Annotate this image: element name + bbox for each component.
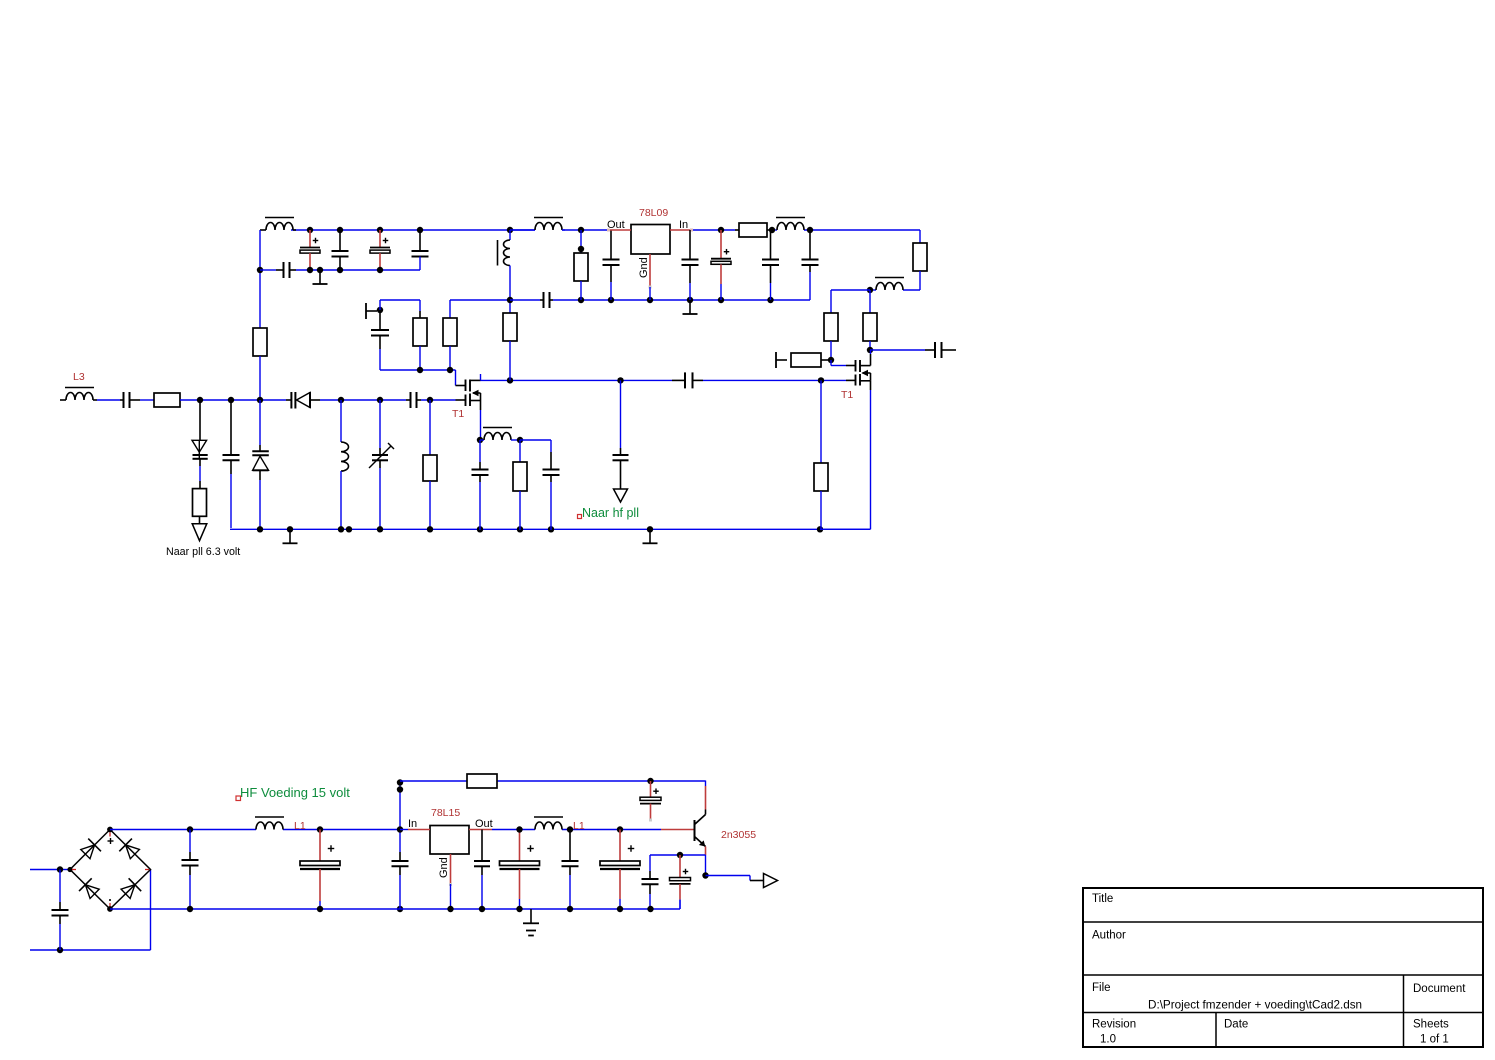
bridge diode D2 — [81, 839, 101, 859]
svg-text:Title: Title — [1092, 893, 1113, 905]
junction dots 0V rail — [187, 906, 654, 912]
capacitor C31 x=650 — [642, 871, 659, 909]
svg-text:Out: Out — [475, 818, 493, 830]
wire +9V top rail — [291, 230, 920, 243]
capacitor C8 x=231 — [223, 400, 240, 529]
pin Out 78L15 — [469, 818, 493, 830]
wire — [831, 290, 870, 313]
wire gate1 net — [421, 399, 456, 401]
svg-text:1.0: 1.0 — [1100, 1034, 1116, 1046]
capacitor C23 x=190 — [182, 830, 199, 910]
capacitor C19 x=480 — [472, 440, 489, 530]
resistor R9 horizontal — [735, 223, 772, 237]
inductor L3 — [60, 388, 97, 401]
transistor T2 dual-gate MOSFET — [820, 350, 871, 529]
transistor T1 dual-gate MOSFET — [456, 374, 481, 440]
junction dots ground bus — [257, 526, 823, 532]
capacitor C11 series — [672, 372, 703, 388]
diode D6 varicap vertical x=260 — [252, 400, 268, 529]
capacitor C26 electrolytic — [640, 781, 661, 822]
wire feedback — [650, 855, 706, 871]
wire emitter out — [706, 876, 764, 881]
wire input bus y=400 — [180, 399, 286, 401]
capacitor C13 x=611 — [603, 230, 620, 300]
junction dots AC — [57, 866, 73, 953]
resistor R5 x=420 — [413, 311, 427, 370]
label L3 — [73, 371, 85, 383]
resistor R13 horizontal — [791, 353, 831, 367]
port arrow Naar pll — [192, 516, 207, 540]
junction dot — [702, 872, 708, 878]
resistor R12 x=870 — [863, 290, 877, 350]
junction dots ground rail — [578, 297, 774, 303]
wire — [199, 459, 201, 489]
capacitor C25 x=400 — [392, 852, 409, 909]
capacitor C15 electrolytic — [711, 230, 731, 300]
capacitor C29 x=570 — [562, 830, 579, 910]
label 78L09 — [639, 207, 668, 219]
svg-text:Naar pll 6.3 volt: Naar pll 6.3 volt — [166, 546, 240, 558]
svg-text:File: File — [1092, 982, 1111, 994]
title block — [1083, 888, 1483, 1047]
pin Out — [607, 219, 631, 232]
ground — [643, 529, 658, 543]
label Naar pll 6.3 volt — [166, 546, 240, 558]
capacitor C27 x=482 — [474, 830, 490, 910]
bridge diode D4 — [79, 878, 99, 898]
bridge diode D3 — [119, 839, 139, 859]
junction dot — [317, 826, 323, 832]
junction dot — [516, 826, 522, 832]
resistor R6 x=450 — [443, 300, 457, 370]
label 2n3055 — [721, 829, 756, 841]
wire — [140, 399, 154, 401]
capacitor C32 electrolytic — [670, 855, 691, 909]
junction dot — [507, 297, 513, 303]
label T1 second — [841, 389, 853, 401]
capacitor C17 x=810 — [802, 230, 819, 272]
svg-text:Revision: Revision — [1092, 1019, 1136, 1031]
wire — [520, 440, 551, 452]
inductor L9 — [480, 428, 520, 441]
inductor L4 vertical x=341 — [341, 400, 349, 530]
svg-text:L3: L3 — [73, 371, 85, 383]
junction dot — [517, 437, 523, 443]
junction dots bridge — [107, 827, 113, 912]
svg-text:78L09: 78L09 — [639, 207, 668, 219]
label L1 — [294, 820, 306, 832]
junction dots In column — [397, 779, 403, 912]
capacitor C24 electrolytic big — [300, 830, 340, 910]
svg-text:Sheets: Sheets — [1413, 1019, 1449, 1031]
inductor L7 — [776, 218, 805, 231]
bridge polarity marks — [72, 833, 149, 908]
svg-text:L1: L1 — [294, 820, 306, 832]
junction dots y=270 — [307, 267, 383, 273]
inductor L5 vertical x=510 — [498, 230, 511, 300]
svg-text:L1: L1 — [573, 820, 585, 832]
resistor R11 x=831 — [824, 313, 838, 360]
capacitor C2 — [332, 230, 349, 270]
regulator U2 78L15 — [430, 826, 469, 855]
wire — [259, 356, 261, 400]
svg-text:Date: Date — [1224, 1019, 1248, 1031]
wire bypass top — [400, 780, 706, 782]
junction dot — [617, 826, 623, 832]
tap stub — [776, 352, 787, 368]
svg-text:T1: T1 — [452, 408, 464, 420]
resistor R15 x=520 — [513, 440, 527, 530]
junction dots — [338, 397, 383, 403]
capacitor C18 output series — [870, 342, 956, 358]
wire — [97, 399, 120, 401]
label L1 second — [573, 820, 585, 832]
svg-text:Out: Out — [607, 219, 625, 231]
svg-text:HF Voeding 15 volt: HF Voeding 15 volt — [240, 785, 350, 800]
capacitor C1 electrolytic — [300, 230, 320, 270]
capacitor C28 electrolytic big — [500, 830, 540, 910]
inductor L1a — [255, 817, 284, 830]
wire left branch x=260 — [259, 230, 261, 328]
capacitor C6 series — [120, 392, 140, 408]
junction dot — [567, 826, 573, 832]
resistor R14 x=820 — [814, 380, 828, 529]
wire y=370 net — [380, 370, 456, 386]
pin Gnd 78L15 — [438, 854, 452, 909]
resistor R7 x=510 — [503, 300, 517, 380]
junction dot — [257, 267, 263, 273]
resistor R8 x=581 — [574, 230, 588, 300]
diode D1 varicap — [286, 392, 320, 409]
label T1 — [452, 408, 464, 420]
junction dots top rail — [307, 227, 813, 233]
junction dot — [677, 852, 683, 858]
capacitor C7 series — [406, 392, 421, 408]
inductor L1b — [534, 817, 563, 830]
ground — [283, 529, 298, 543]
junction dot — [477, 437, 483, 443]
ground — [313, 270, 328, 284]
svg-text:Naar hf pll: Naar hf pll — [582, 506, 639, 520]
wire +V rail — [110, 829, 400, 831]
junction dots — [417, 367, 453, 373]
regulator U1 78L09 — [631, 225, 670, 255]
svg-text:Author: Author — [1092, 930, 1126, 942]
ground earth — [523, 909, 539, 936]
bridge rectifier B1 frame — [70, 830, 151, 910]
bridge diode D5 — [121, 878, 141, 898]
svg-text:In: In — [408, 818, 417, 830]
junction dot — [867, 347, 873, 353]
wire AC line 1 — [30, 869, 70, 871]
junction dot — [427, 397, 433, 403]
variable capacitor C9 — [369, 400, 394, 530]
capacitor C12 series — [540, 292, 553, 308]
zener diode Z1 — [192, 400, 208, 459]
svg-text:Gnd: Gnd — [638, 257, 650, 278]
label HF Voeding 15 volt — [236, 785, 350, 801]
wire cap-bank bottom y=270 — [260, 269, 420, 271]
wire ground rail y=300 — [510, 272, 810, 300]
label 78L15 — [431, 807, 460, 819]
ground — [683, 300, 698, 314]
capacitor C21 x=620 — [613, 380, 629, 489]
capacitor C4 — [412, 230, 429, 270]
svg-text:D:\Project fmzender + voeding\: D:\Project fmzender + voeding\tCad2.dsn — [1148, 999, 1362, 1012]
junction dot — [187, 826, 193, 832]
wire — [380, 300, 420, 311]
tap stub — [366, 303, 377, 319]
wire Out rail — [492, 829, 661, 831]
capacitor C16 x=770 — [762, 230, 779, 300]
capacitor C30 electrolytic big — [600, 830, 640, 910]
capacitor C10 — [371, 310, 389, 370]
pin Gnd — [638, 254, 652, 300]
wire AC line 2 — [30, 870, 151, 951]
junction dot node A — [377, 307, 383, 313]
wire ground bus y=530 — [231, 528, 870, 530]
junction dots y=400 left — [197, 397, 263, 403]
port arrow output — [764, 874, 778, 888]
capacitor C20 x=551 — [543, 452, 560, 530]
svg-text:78L15: 78L15 — [431, 807, 460, 819]
svg-text:T1: T1 — [841, 389, 853, 401]
junction dot — [828, 357, 834, 363]
svg-text:2n3055: 2n3055 — [721, 829, 756, 841]
label Naar hf pll — [578, 506, 639, 520]
wire 0V rail — [110, 900, 680, 909]
inductor L8 — [870, 278, 904, 291]
svg-text:Document: Document — [1413, 983, 1466, 995]
svg-text:1 of 1: 1 of 1 — [1420, 1034, 1449, 1046]
capacitor C22 AC input — [52, 870, 69, 951]
capacitor C14 x=690 — [682, 230, 699, 300]
pin In 78L15 — [400, 818, 430, 830]
port arrow Naar hf pll — [614, 489, 628, 502]
svg-text:In: In — [679, 219, 688, 231]
inductor L6 — [510, 218, 565, 231]
junction dot — [647, 778, 653, 784]
wire — [320, 399, 406, 401]
inductor top-left — [260, 218, 296, 231]
capacitor C5 series — [276, 262, 296, 278]
svg-text:Gnd: Gnd — [438, 857, 450, 878]
resistor R4 x=430 — [423, 400, 437, 530]
transistor Q1 2n3055 — [661, 781, 706, 876]
resistor R2 — [154, 393, 180, 407]
junction dot — [867, 287, 873, 293]
wire gate2 jog — [831, 360, 846, 366]
resistor R16 bypass — [467, 774, 497, 788]
wire R6 top to ground rail — [450, 299, 510, 301]
wire In column — [399, 781, 401, 852]
junction dots drain net — [507, 377, 824, 383]
wire drain net y=380 — [481, 379, 847, 381]
resistor R1 vertical x=260 — [253, 328, 267, 356]
pin In — [670, 219, 693, 232]
resistor R3 — [193, 489, 207, 517]
resistor R10 x=920 — [903, 243, 927, 290]
capacitor C3 electrolytic — [370, 230, 390, 270]
